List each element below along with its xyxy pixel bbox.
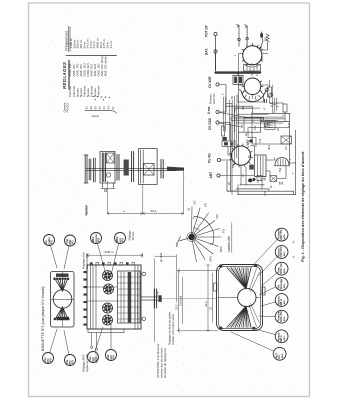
socket spoke pin top: [55, 278, 63, 291]
dimension lines: [107, 168, 183, 215]
dim lines left: [207, 265, 210, 331]
svg-text:≈48: ≈48: [156, 291, 160, 296]
callout: [106, 350, 117, 361]
svg-text:acc.: acc.: [283, 268, 286, 273]
saucer coil: [275, 158, 289, 166]
cradle shield V2: [242, 92, 266, 102]
resistor R1 zigzag: [261, 34, 269, 50]
component block PU: [222, 141, 235, 147]
box with X: [281, 136, 291, 144]
chassis shaft right: [141, 297, 159, 300]
svg-text:accord MF1: accord MF1: [85, 253, 89, 269]
tube socket: [103, 303, 113, 313]
callout: [275, 330, 288, 343]
bearing bracket: [139, 149, 158, 185]
svg-text:ANT: ANT: [209, 172, 213, 179]
resistor R2: [267, 87, 271, 97]
callout: [273, 347, 286, 360]
svg-text:34,4: 34,4: [204, 301, 208, 307]
wire CV OSC: [219, 123, 230, 192]
bottom pin bar: [57, 317, 70, 320]
callout: [65, 235, 76, 246]
svg-text:acc.: acc.: [283, 335, 286, 340]
svg-text:Fréquences: Fréquences: [64, 31, 68, 51]
resistor R3: [283, 104, 287, 112]
svg-text:PO: PO: [49, 358, 53, 362]
tick rows: [271, 103, 279, 107]
disc C: [132, 152, 134, 182]
dial ray: [192, 229, 220, 238]
svg-text:acc.: acc.: [283, 251, 286, 256]
fan hub: [188, 234, 194, 240]
svg-text:47k: 47k: [258, 138, 262, 143]
wire row B: [252, 113, 290, 165]
svg-text:au delà: au delà: [159, 252, 163, 262]
dial ray: [191, 207, 194, 238]
op tube V1: [243, 46, 262, 65]
svg-text:6,3: 6,3: [260, 56, 264, 60]
shield base box: [237, 95, 264, 102]
terminal ANT: [217, 174, 220, 177]
wire top links: [239, 54, 243, 86]
foot bracket: [101, 183, 115, 189]
svg-text:MF1: MF1: [209, 255, 213, 261]
svg-text:41: 41: [85, 106, 89, 110]
svg-text:0,1: 0,1: [256, 179, 260, 183]
svg-text:PO: PO: [50, 240, 54, 244]
svg-text:OSC PO: OSC PO: [212, 94, 216, 104]
socket spoke pin bottom: [60, 307, 62, 320]
svg-text:N.: N.: [292, 255, 296, 258]
callout: [275, 228, 288, 241]
svg-text:77/4: 77/4: [263, 190, 267, 196]
wire mesh A: [231, 104, 233, 195]
wire vertical bus left: [238, 85, 240, 165]
spoke fan up: [227, 268, 251, 289]
terminal CV ANT: [216, 83, 219, 86]
svg-text:Trimmer: Trimmer: [97, 86, 101, 97]
chassis left pins: [83, 271, 87, 273]
dial ray: [192, 237, 197, 262]
svg-text:RÉGLAGES: RÉGLAGES: [62, 62, 67, 89]
top terminal +HT: [245, 25, 248, 45]
wire PU: [221, 159, 232, 161]
disc D: [161, 160, 163, 179]
grid cap lead: [260, 33, 263, 37]
svg-text:0,5: 0,5: [284, 146, 288, 150]
svg-text:cadran-dib: cadran-dib: [227, 236, 231, 252]
svg-text:Jd: Jd: [187, 208, 191, 211]
svg-text:CV ANT: CV ANT: [208, 76, 212, 88]
socket spoke pin bottom: [63, 307, 66, 320]
top terminal AVC: [237, 24, 240, 46]
mounting tabs: [214, 283, 217, 291]
faint right spokes: [249, 269, 260, 327]
callout: [65, 355, 76, 366]
mounting holes: [142, 272, 146, 276]
output tube V4: [231, 146, 250, 165]
slanted wires: [219, 112, 247, 127]
svg-text:PO: PO: [71, 240, 75, 244]
dial ray: [192, 213, 209, 237]
svg-text:CV OSC: CV OSC: [208, 117, 212, 130]
mixer tube V2: [244, 78, 261, 95]
svg-text:PO-GO: PO-GO: [66, 102, 70, 112]
chassis dim right: [155, 255, 177, 343]
terminal 6 ma: [216, 110, 219, 113]
alignment table: [62, 27, 117, 119]
svg-text:4x: 4x: [111, 106, 115, 110]
svg-text:MF1: MF1: [267, 144, 271, 150]
axis link line: [162, 298, 216, 300]
spacer discs: [94, 158, 96, 182]
svg-text:PU: PU: [222, 229, 226, 233]
chassis top view: [83, 230, 216, 351]
svg-text:Tr.: Tr.: [292, 240, 296, 243]
svg-text:PO: PO: [71, 360, 75, 364]
baguette socket plate: [41, 204, 175, 379]
drum block A: [100, 152, 115, 184]
cluster near V4: [247, 140, 250, 145]
top pin bar: [56, 274, 69, 277]
svg-text:Réglage: Réglage: [128, 230, 132, 241]
dial drum circle: [238, 288, 256, 306]
dial ray: [192, 221, 216, 238]
svg-text:PU AC: PU AC: [208, 153, 212, 163]
socket spoke pin top: [63, 278, 66, 291]
svg-text:6 ma: 6 ma: [207, 107, 211, 114]
svg-text:1M: 1M: [287, 123, 291, 127]
svg-text:19: 19: [89, 106, 93, 110]
svg-text:Réglage: Réglage: [84, 204, 88, 215]
mid lines: [218, 297, 260, 299]
shaft mechanism drawing: [84, 149, 191, 217]
wire mesh D: [251, 146, 255, 155]
tube socket: [103, 271, 113, 281]
svg-text:BAGUETTE N°1 (vue plaque N°1 é: BAGUETTE N°1 (vue plaque N°1 écoute): [41, 287, 45, 351]
svg-text:43: 43: [93, 106, 97, 110]
tuner front view: [175, 265, 266, 333]
svg-text:POT BF: POT BF: [205, 25, 209, 37]
chassis dim line top: [87, 253, 143, 257]
dial ray: [192, 237, 214, 254]
svg-text:100: 100: [253, 125, 257, 130]
callout: [44, 235, 55, 246]
socket spoke pin bottom: [63, 307, 69, 320]
svg-text:4,7: 4,7: [281, 114, 285, 118]
svg-text:acc.: acc.: [283, 299, 286, 304]
wire BAT stub: [215, 53, 217, 71]
trimmer CT3: [260, 118, 264, 122]
wire row A: [226, 105, 252, 107]
collar B: [124, 160, 129, 176]
callout: [275, 278, 288, 291]
dial pointer fan: [175, 200, 232, 262]
socket spoke pin bottom: [58, 307, 63, 320]
shaft left flange: [84, 155, 91, 183]
svg-text:vw1w: vw1w: [92, 114, 100, 118]
wire bundle: [231, 108, 285, 123]
callout: [88, 352, 99, 363]
svg-text:OC: OC: [193, 200, 197, 204]
wire row C: [238, 122, 289, 133]
wire loop rect: [252, 112, 290, 144]
padder box: [257, 176, 262, 181]
terminal BAT.: [214, 50, 217, 53]
callout: [275, 262, 288, 275]
chassis bottom cap: [88, 329, 124, 333]
svg-text:50k: 50k: [278, 167, 282, 172]
wire drops right: [273, 85, 277, 113]
tube socket: [103, 315, 113, 325]
wire POT BF down: [215, 36, 217, 71]
disc pair: [117, 155, 119, 181]
svg-text:acc.: acc.: [283, 316, 286, 321]
wire right boundary: [295, 130, 297, 195]
trimmer CT4: [264, 123, 268, 127]
shaft tip: [167, 167, 184, 171]
svg-text:≈245 m: ≈245 m: [104, 250, 114, 254]
svg-text:acc.: acc.: [281, 353, 284, 358]
dial arc: [195, 216, 214, 243]
tube socket: [104, 284, 114, 294]
svg-text:2+4 fond: 2+4 fond: [179, 295, 183, 306]
svg-text:22: 22: [208, 306, 212, 310]
MF can T2: [233, 75, 243, 84]
dial ray: [192, 237, 219, 247]
svg-text:acc.: acc.: [283, 234, 286, 239]
callout: [115, 233, 126, 244]
svg-text:PO: PO: [94, 357, 98, 361]
wire CV ANT: [219, 85, 226, 113]
terminal PU AC: [217, 158, 220, 161]
chassis top notches: [90, 262, 93, 265]
heavy bus wire: [216, 71, 261, 73]
svg-text:PO: PO: [112, 355, 116, 359]
dial ray: [192, 237, 206, 260]
hub stub left: [177, 237, 189, 245]
terminal POT BF: [214, 32, 217, 35]
socket spoke pin top: [57, 278, 62, 291]
callout: [43, 353, 54, 364]
MF can right of V4: [255, 155, 267, 177]
callout: [91, 233, 102, 244]
terminal CV OSC: [216, 121, 219, 124]
grid box V1: [244, 65, 261, 72]
svg-text:50°: 50°: [175, 243, 179, 247]
chassis inner block: [118, 271, 141, 323]
dial ray: [192, 236, 222, 238]
dim box outer: [178, 270, 182, 331]
chassis rails: [91, 266, 139, 330]
svg-text:ANT. OC (fixe): ANT. OC (fixe): [104, 57, 108, 77]
svg-text:MF acc.: MF acc.: [131, 231, 135, 241]
callout: [275, 310, 288, 323]
trimmer CT1: [265, 88, 269, 92]
svg-text:acc.: acc.: [283, 283, 286, 288]
shaft axis: [86, 168, 176, 170]
bottom wires: [240, 184, 264, 186]
socket spoke pin bottom: [62, 307, 64, 320]
svg-text:MF2: MF2: [219, 246, 223, 252]
svg-text:0,1: 0,1: [241, 106, 245, 110]
svg-text:4½: 4½: [107, 105, 111, 110]
vertical bundle left: [224, 97, 233, 140]
svg-text:PO: PO: [97, 238, 101, 242]
dial ray: [192, 208, 201, 237]
wire ANT long: [220, 175, 254, 177]
svg-text:noyau acc PO: noyau acc PO: [85, 353, 89, 372]
capacitor C: [222, 126, 225, 136]
svg-text:Fig. 1 - Disposition des éléme: Fig. 1 - Disposition des éléments de rég…: [301, 151, 305, 262]
svg-text:mobile: voir notice usine: mobile: voir notice usine: [171, 314, 175, 345]
svg-text:PO: PO: [121, 238, 125, 242]
callout: [275, 294, 288, 307]
spoke fan down: [227, 306, 251, 327]
svg-text:BAT.: BAT.: [205, 48, 209, 55]
wire mesh C: [251, 106, 253, 113]
trimmer CT2: [268, 93, 272, 97]
callout: [275, 246, 288, 259]
callout circles: [43, 227, 289, 365]
schematic of bloc accord: [205, 24, 296, 196]
socket spoke pin bottom: [55, 307, 63, 320]
cathode blob: [249, 165, 254, 170]
svg-text:4,2 m.: 4,2 m.: [109, 40, 113, 49]
svg-text:CV: CV: [240, 124, 244, 128]
box with X small: [270, 176, 277, 182]
socket spoke pin top: [60, 278, 63, 291]
wire mesh B: [244, 118, 261, 132]
svg-text:31,5: 31,5: [175, 304, 179, 310]
svg-text:44: 44: [102, 106, 106, 110]
socket spoke pin top: [63, 278, 69, 291]
table dot leaders: [93, 97, 110, 100]
svg-text:du palier de réglage du: du palier de réglage du: [163, 348, 167, 378]
wire bundle left verticals: [235, 96, 237, 165]
capacitor C2: [264, 99, 266, 103]
socket spoke pin top: [62, 278, 64, 291]
electrolytic C3: [248, 178, 252, 182]
component box mid: [265, 121, 275, 130]
chassis body: [87, 265, 141, 329]
wire junction v: [227, 161, 238, 191]
